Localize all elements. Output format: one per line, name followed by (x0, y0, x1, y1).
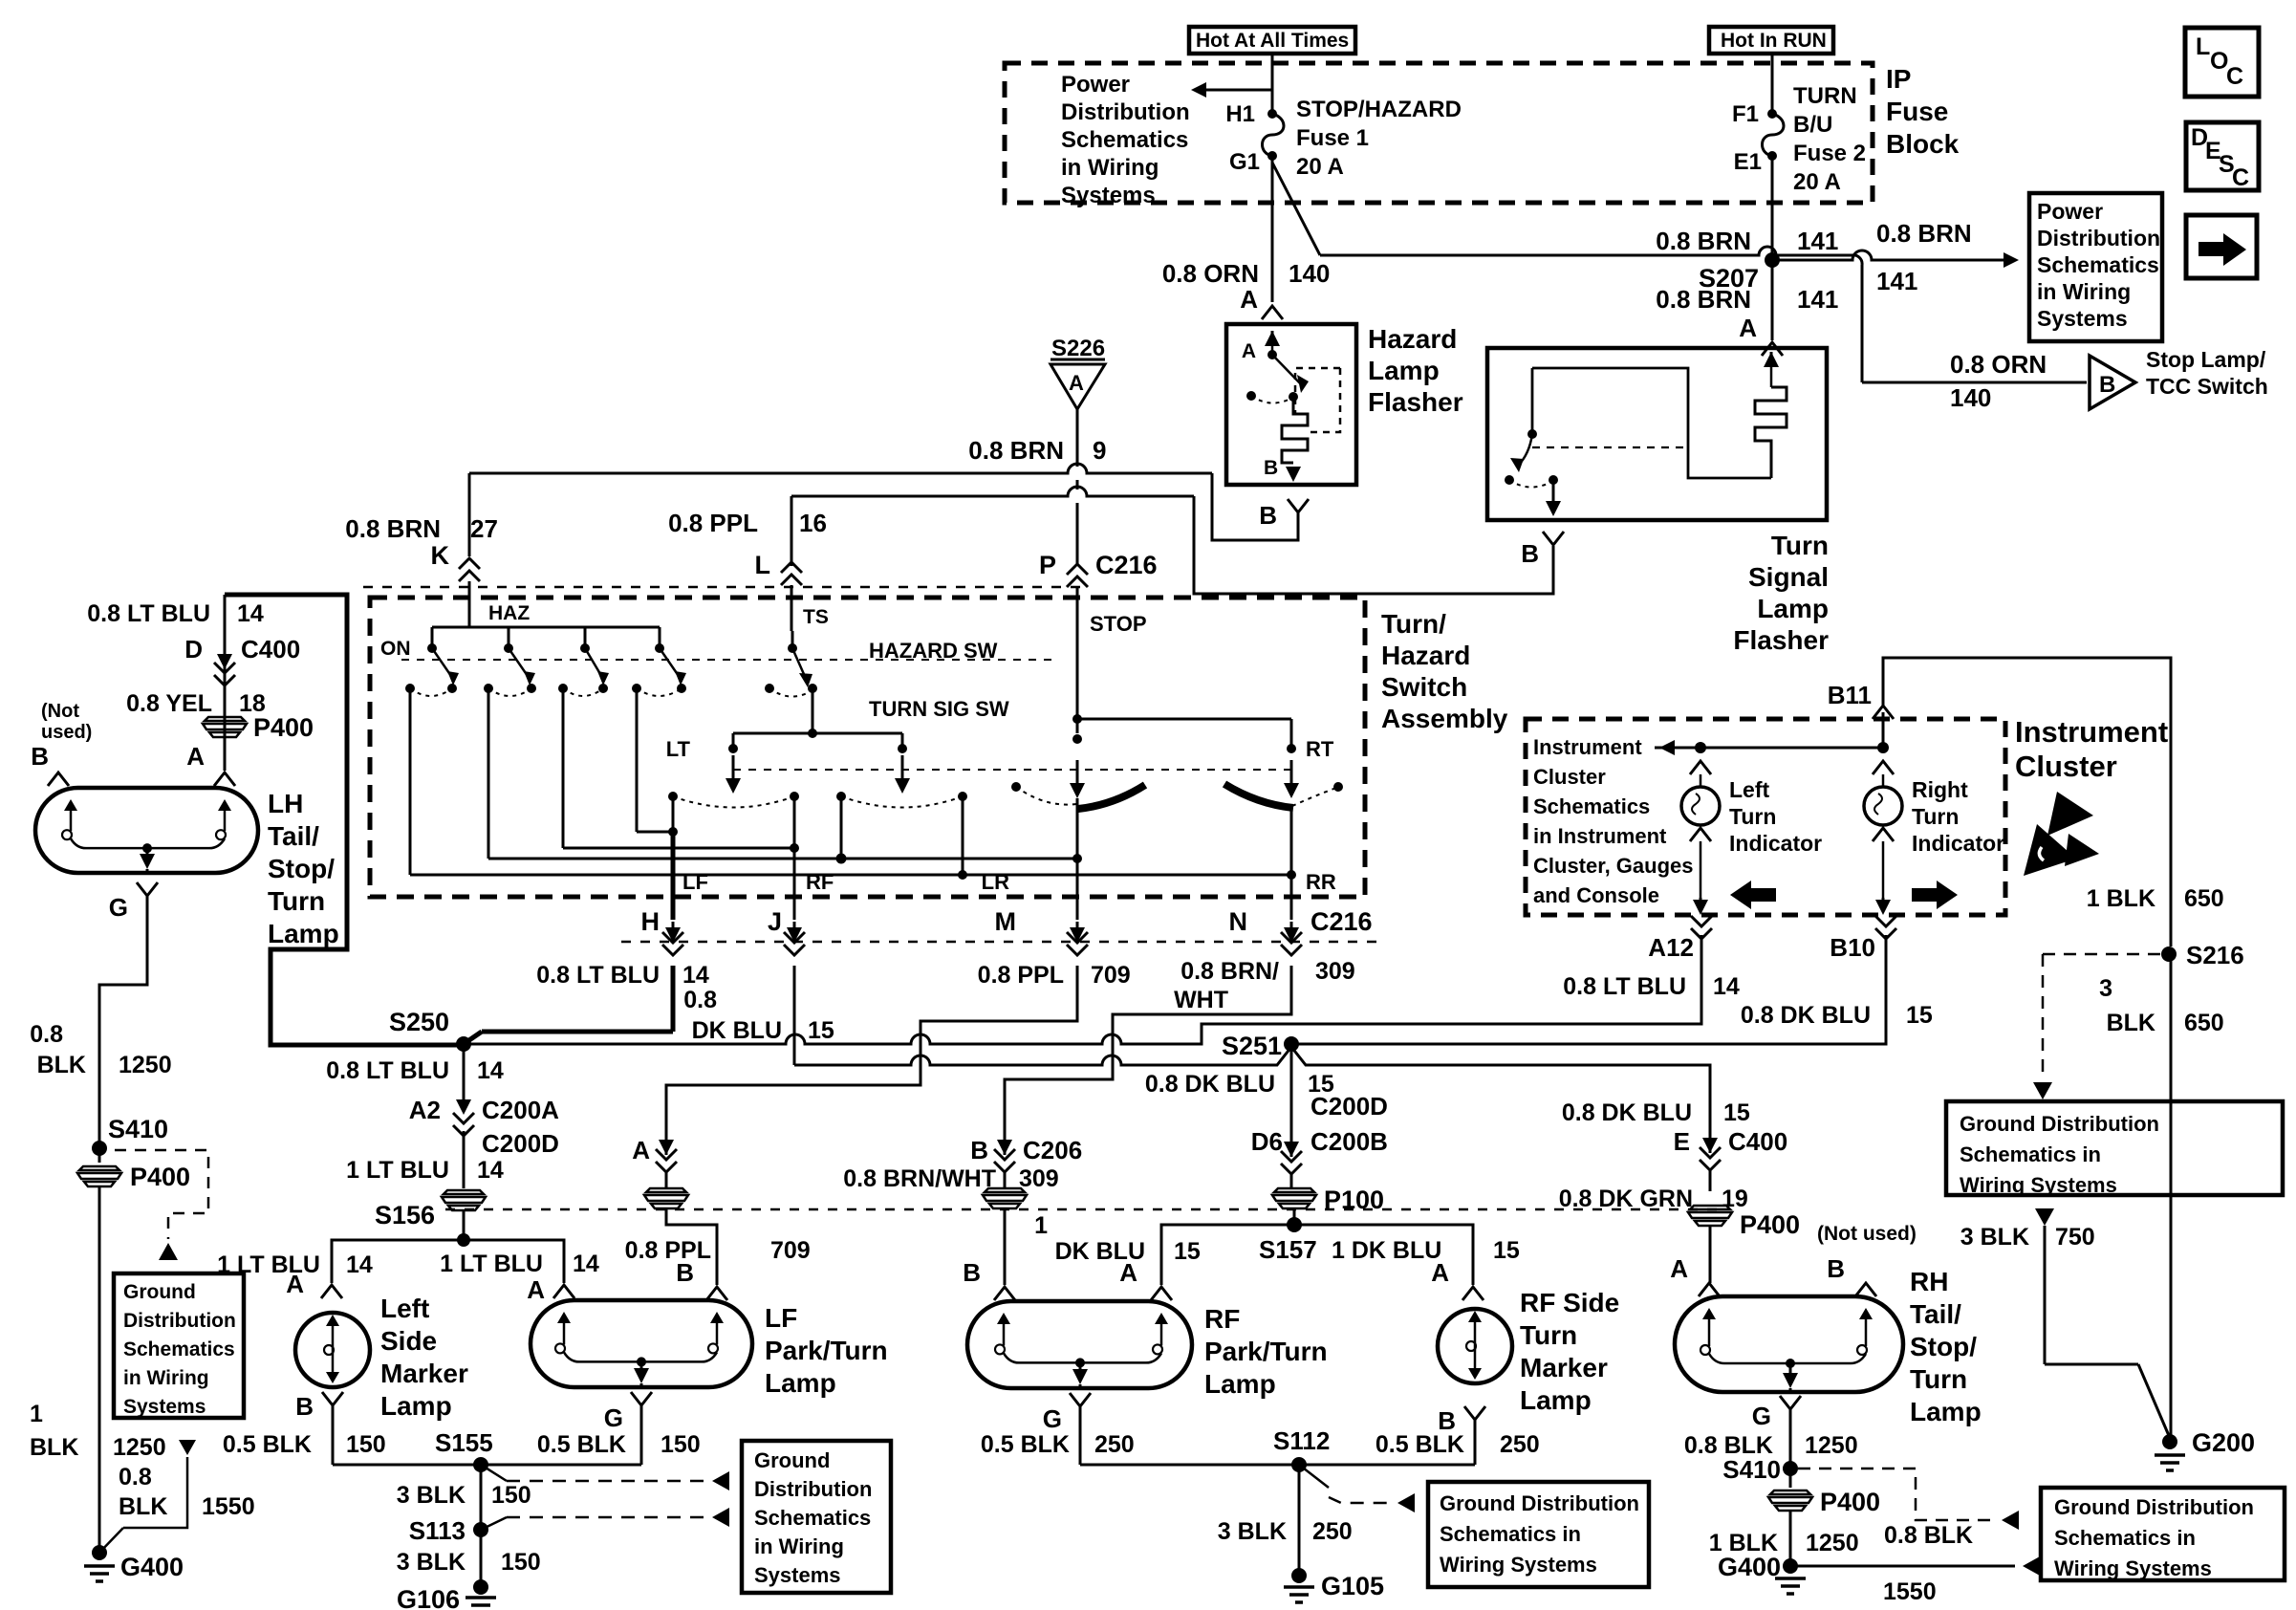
wire fuse1 G1 to hazard flasher A (0.8 ORN 140) (1271, 156, 1274, 302)
svg-text:141: 141 (1876, 267, 1917, 295)
svg-text:1550: 1550 (202, 1493, 255, 1520)
svg-text:0.8 PPL: 0.8 PPL (978, 962, 1064, 989)
inline connector P400 (right, not used) (1690, 1206, 1730, 1209)
svg-text:14: 14 (682, 962, 709, 989)
svg-text:Hazard: Hazard (1368, 324, 1457, 354)
svg-text:1250: 1250 (113, 1434, 166, 1461)
switch bus to N (RR) (409, 688, 412, 875)
wire S156 to left side marker A (1 LT BLU 14) (332, 1240, 464, 1283)
svg-text:0.8 ORN: 0.8 ORN (1950, 350, 2047, 379)
svg-text:DK BLU: DK BLU (1055, 1238, 1145, 1265)
terminal B of turn signal flasher (1543, 532, 1564, 545)
svg-text:B: B (295, 1392, 314, 1421)
svg-text:G106: G106 (397, 1585, 460, 1610)
svg-text:P: P (1039, 551, 1056, 579)
svg-text:Cluster, Gauges: Cluster, Gauges (1533, 854, 1694, 878)
svg-text:P400: P400 (1820, 1488, 1880, 1516)
svg-text:3 BLK: 3 BLK (1218, 1518, 1287, 1545)
right turn indicator bulb (1873, 761, 1894, 774)
svg-text:141: 141 (1797, 285, 1838, 314)
svg-text:Fuse 2: Fuse 2 (1793, 141, 1866, 166)
svg-text:Turn: Turn (1771, 531, 1829, 560)
svg-text:J: J (768, 907, 782, 936)
svg-text:15: 15 (1174, 1238, 1201, 1265)
connector C200B terminal D6 (1290, 1143, 1293, 1157)
svg-text:15: 15 (1493, 1237, 1520, 1264)
svg-text:14: 14 (237, 600, 264, 627)
svg-text:3: 3 (2099, 975, 2112, 1002)
svg-text:Distribution: Distribution (2037, 226, 2160, 250)
svg-text:0.5 BLK: 0.5 BLK (981, 1431, 1070, 1458)
svg-text:150: 150 (501, 1549, 541, 1576)
turn signal dashed travel line (733, 769, 1291, 771)
dashed reference S112 to ground box (1299, 1465, 1329, 1488)
svg-text:H1: H1 (1225, 101, 1255, 127)
svg-text:Turn: Turn (268, 886, 325, 916)
svg-text:Systems: Systems (2037, 306, 2128, 331)
svg-text:A: A (527, 1275, 545, 1304)
svg-text:0.8: 0.8 (683, 987, 717, 1013)
legend box arrow (2186, 215, 2257, 278)
terminal A of RH tail lamp (1699, 1283, 1720, 1296)
svg-text:C200D: C200D (1310, 1092, 1388, 1120)
wire B11 to S216 (1 BLK 650) (1883, 658, 2171, 946)
svg-text:0.8 LT BLU: 0.8 LT BLU (536, 962, 660, 989)
svg-text:1: 1 (1034, 1212, 1048, 1239)
svg-text:0.5 BLK: 0.5 BLK (1375, 1431, 1464, 1458)
svg-text:Ground Distribution: Ground Distribution (2054, 1495, 2254, 1519)
svg-text:C200A: C200A (482, 1096, 559, 1124)
svg-text:A: A (1242, 340, 1256, 362)
svg-text:RH: RH (1910, 1267, 1948, 1296)
hazard switch bus and labels (432, 626, 660, 629)
svg-text:0.8: 0.8 (30, 1021, 63, 1048)
svg-text:Ground Distribution: Ground Distribution (1960, 1112, 2159, 1136)
svg-text:S157: S157 (1259, 1235, 1317, 1264)
svg-text:0.8 DK BLU: 0.8 DK BLU (1741, 1002, 1871, 1029)
fuse F2 TURN B/U Fuse 2 20 A (1767, 109, 1777, 119)
svg-text:Distribution: Distribution (1061, 99, 1190, 125)
right arrow icon (1912, 888, 1939, 902)
wire turn signal flasher B to switch TS terminal L (0.8 PPL 16) (1194, 496, 1553, 594)
svg-text:BLK: BLK (119, 1493, 167, 1520)
splice S207 (1765, 252, 1780, 268)
svg-text:LT: LT (666, 737, 691, 761)
svg-text:A: A (1069, 371, 1084, 395)
svg-text:RF Side: RF Side (1520, 1288, 1619, 1317)
svg-text:3 BLK: 3 BLK (397, 1482, 466, 1509)
switch output wire LF (to H) (672, 796, 675, 832)
svg-text:Switch: Switch (1381, 672, 1467, 702)
svg-text:B10: B10 (1830, 933, 1875, 962)
connector B triangle: Stop Lamp/TCC Switch (2090, 356, 2135, 409)
svg-text:Lamp: Lamp (1368, 356, 1440, 385)
svg-text:Signal: Signal (1748, 562, 1829, 592)
svg-text:Systems: Systems (123, 1396, 206, 1418)
svg-text:14: 14 (477, 1057, 504, 1084)
hazard switch fixed contacts + travel arcs (405, 684, 415, 693)
splice below S156 (457, 1233, 470, 1247)
svg-text:27: 27 (470, 514, 498, 543)
svg-text:20 A: 20 A (1793, 169, 1841, 195)
ground G400 (left) (92, 1545, 107, 1560)
svg-text:A: A (1240, 285, 1258, 314)
svg-text:Park/Turn: Park/Turn (765, 1336, 888, 1365)
svg-text:141: 141 (1797, 227, 1838, 255)
svg-text:Lamp: Lamp (765, 1368, 836, 1398)
svg-text:Instrument: Instrument (1533, 735, 1642, 759)
wire G1 branch to stop lamp (diagonal + horizontal, hops over BRN141) (1272, 163, 1320, 255)
svg-text:1550: 1550 (1883, 1578, 1937, 1605)
svg-text:in Wiring: in Wiring (2037, 279, 2131, 304)
svg-text:Fuse: Fuse (1886, 97, 1948, 126)
svg-text:650: 650 (2184, 885, 2224, 912)
reference box: Ground Distribution Schematics in Wiring Systems (bottom right) (2041, 1488, 2285, 1580)
dashed reference S155 to ground box (481, 1465, 507, 1481)
svg-text:250: 250 (1312, 1518, 1353, 1545)
svg-text:Cluster: Cluster (1533, 765, 1606, 789)
svg-text:G1: G1 (1229, 149, 1260, 175)
svg-text:HAZARD SW: HAZARD SW (869, 639, 998, 663)
svg-text:15: 15 (808, 1017, 834, 1044)
terminal A of LH tail lamp (214, 772, 235, 786)
wire RH lamp G to S410 (0.8 BLK 1250) (1789, 1409, 1792, 1463)
svg-text:Wiring Systems: Wiring Systems (1440, 1553, 1597, 1577)
svg-text:S410: S410 (1722, 1455, 1781, 1484)
turn/hazard switch assembly dashed box (370, 598, 1365, 897)
svg-text:Lamp: Lamp (1757, 594, 1829, 623)
svg-text:BLK: BLK (30, 1434, 78, 1461)
svg-text:Schematics: Schematics (1061, 127, 1188, 153)
svg-text:TURN SIG SW: TURN SIG SW (869, 697, 1009, 721)
svg-text:309: 309 (1315, 958, 1355, 985)
svg-text:LF: LF (765, 1303, 797, 1333)
wire left marker B to S155 (0.5 BLK 150) (333, 1464, 474, 1467)
svg-text:Block: Block (1886, 129, 1960, 159)
svg-text:0.8: 0.8 (119, 1464, 152, 1490)
splice S410 (right) (1783, 1461, 1798, 1476)
wire H down to S250 link (671, 966, 676, 1032)
wire B11 common feed in cluster (1655, 747, 1883, 750)
svg-text:B: B (1521, 539, 1539, 568)
svg-text:B11: B11 (1828, 681, 1872, 709)
svg-text:Indicator: Indicator (1912, 831, 2004, 856)
reference box: Ground Distribution Schematics in Wiring Systems (right) (1946, 1101, 2283, 1195)
svg-text:Hot In RUN: Hot In RUN (1721, 30, 1827, 52)
svg-text:1250: 1250 (1805, 1432, 1858, 1459)
turn signal flasher internals: switch arm, contacts, resistor (1770, 352, 1773, 365)
svg-text:Turn: Turn (1912, 804, 1959, 829)
wire LH tail lamp feed D/C400 (0.8 LT BLU 14, 0.8 YEL 18) (224, 595, 227, 771)
svg-text:(Not: (Not (41, 701, 79, 722)
hazard lamp flasher box (1226, 324, 1356, 485)
ESD warning symbol (2047, 792, 2093, 836)
svg-text:ON: ON (380, 638, 411, 660)
svg-text:S112: S112 (1273, 1426, 1330, 1455)
svg-text:Power: Power (1061, 72, 1130, 98)
lamp: Left Side Marker Lamp (295, 1313, 370, 1387)
ground G400 (right) (1783, 1558, 1798, 1574)
svg-text:Ground: Ground (123, 1281, 196, 1303)
svg-text:Left: Left (380, 1294, 429, 1323)
svg-text:0.8 DK BLU: 0.8 DK BLU (1562, 1099, 1692, 1126)
svg-text:0.8 ORN: 0.8 ORN (1162, 259, 1259, 288)
svg-text:Flasher: Flasher (1368, 387, 1463, 417)
wire S250 down to S156 (A2 C200A C200D) (463, 1044, 466, 1099)
wire Hot At All Times to fuse 1 (1271, 54, 1274, 110)
svg-text:Marker: Marker (1520, 1353, 1608, 1382)
svg-text:TCC Switch: TCC Switch (2146, 374, 2268, 399)
svg-text:1 LT BLU: 1 LT BLU (346, 1157, 449, 1184)
terminal B of left side marker (322, 1392, 343, 1405)
wire 750 to G200 (2045, 1363, 2138, 1366)
svg-text:Systems: Systems (754, 1563, 841, 1587)
svg-text:Right: Right (1912, 777, 1968, 802)
svg-text:0.8 BRN/WHT: 0.8 BRN/WHT (843, 1165, 996, 1192)
svg-text:RF: RF (1204, 1304, 1240, 1334)
splice S216 (2161, 946, 2177, 962)
svg-text:Turn/: Turn/ (1381, 609, 1446, 639)
svg-text:A: A (1739, 314, 1757, 342)
splice S410 (left) (92, 1141, 107, 1156)
connector C216 dashed line (top) (363, 586, 1085, 589)
wire S157 to RF park lamp A (1 DK BLU 15) (1161, 1225, 1294, 1285)
splice S112 (1291, 1457, 1307, 1472)
svg-text:150: 150 (346, 1431, 386, 1458)
left turn indicator bulb (1690, 761, 1711, 774)
svg-text:Turn: Turn (1729, 804, 1776, 829)
svg-text:HAZ: HAZ (488, 602, 530, 624)
svg-text:C200B: C200B (1310, 1127, 1388, 1156)
svg-text:C206: C206 (1023, 1136, 1082, 1164)
svg-text:L: L (2196, 33, 2210, 60)
stop wire junctions and RT bus (1072, 714, 1082, 724)
svg-text:Fuse 1: Fuse 1 (1296, 125, 1369, 151)
stop-to-LR wiper (bold arc) (1078, 785, 1145, 809)
svg-text:G400: G400 (1718, 1553, 1781, 1581)
svg-text:250: 250 (1500, 1431, 1540, 1458)
svg-text:Distribution: Distribution (754, 1477, 872, 1501)
splice S251 (1284, 1036, 1299, 1052)
svg-text:140: 140 (1950, 383, 1991, 412)
svg-text:S155: S155 (435, 1428, 493, 1457)
svg-text:0.8 LT BLU: 0.8 LT BLU (87, 600, 210, 627)
wire RF lamp G to S112 (0.5 BLK 250) (1080, 1464, 1292, 1467)
inline connector P400 (left of LH lamp) (205, 717, 245, 721)
wire S157 to RF side marker A (1 DK BLU 15) (1294, 1225, 1473, 1285)
terminal B of hazard flasher (1288, 499, 1309, 512)
svg-text:M: M (995, 907, 1017, 936)
svg-text:STOP/HAZARD: STOP/HAZARD (1296, 97, 1462, 122)
svg-text:Assembly: Assembly (1381, 704, 1508, 733)
svg-text:P400: P400 (1740, 1210, 1800, 1239)
svg-text:(Not used): (Not used) (1817, 1223, 1917, 1245)
power tag: Hot In RUN (1709, 27, 1833, 54)
svg-text:0.8 LT BLU: 0.8 LT BLU (1563, 973, 1686, 1000)
svg-text:RR: RR (1306, 870, 1336, 894)
svg-text:C400: C400 (1728, 1127, 1787, 1156)
connector C216 terminal P (1067, 564, 1088, 575)
svg-text:1: 1 (30, 1401, 43, 1427)
arrow to power distribution (left) (1204, 89, 1273, 92)
inline connector dashed line (445, 1208, 1721, 1211)
svg-text:Park/Turn: Park/Turn (1204, 1337, 1328, 1366)
svg-text:Schematics in: Schematics in (2054, 1526, 2196, 1550)
svg-text:RF: RF (806, 870, 834, 894)
svg-text:1250: 1250 (1806, 1530, 1859, 1556)
svg-text:S216: S216 (2186, 941, 2244, 969)
wire S156 to LF park lamp A (1 LT BLU 14) (464, 1240, 564, 1283)
wire S251 to instrument cluster B10 (0.8 DK BLU 15) (1291, 935, 1886, 1044)
svg-text:S113: S113 (409, 1516, 466, 1545)
svg-text:0.8 BLK: 0.8 BLK (1884, 1522, 1973, 1549)
svg-text:B: B (963, 1258, 981, 1287)
svg-text:G105: G105 (1321, 1572, 1384, 1600)
svg-text:3 BLK: 3 BLK (1960, 1224, 2029, 1251)
svg-text:0.8 BRN/: 0.8 BRN/ (1180, 958, 1279, 985)
fuse F1 STOP/HAZARD Fuse 1 20 A (1267, 109, 1277, 119)
connector B10 into instrument cluster (1875, 916, 1896, 926)
splice S155 (473, 1457, 488, 1472)
inline connector S156 (444, 1190, 484, 1194)
inline connector below B (BRN/WHT) (985, 1188, 1025, 1192)
svg-text:Tail/: Tail/ (268, 821, 319, 851)
svg-text:DK BLU: DK BLU (692, 1017, 782, 1044)
svg-text:K: K (431, 541, 450, 570)
svg-text:BLK: BLK (37, 1052, 86, 1078)
RT-to-RR wiper (bold arc) (1224, 784, 1293, 808)
svg-text:in Wiring: in Wiring (123, 1367, 209, 1389)
ground G200 (2162, 1434, 2177, 1449)
wire S155 to LF lamp G (0.5 BLK 150) (481, 1464, 641, 1467)
svg-text:G: G (109, 893, 128, 922)
terminal B of RF side marker (1464, 1406, 1485, 1420)
splice S113 (473, 1522, 488, 1537)
svg-text:Lamp: Lamp (1910, 1397, 1982, 1426)
svg-text:in Wiring: in Wiring (754, 1534, 844, 1558)
dashed reference S410 to ground box (right) (1798, 1469, 1994, 1520)
svg-text:Ground Distribution: Ground Distribution (1440, 1491, 1639, 1515)
svg-text:A12: A12 (1648, 933, 1694, 962)
lamp: RH Tail/Stop/Turn Lamp (1675, 1296, 1903, 1392)
svg-text:Indicator: Indicator (1729, 831, 1822, 856)
wire J down and right to E (0.8 DK BLU 15) with S251 tap (793, 966, 796, 1065)
connector B11 (1882, 712, 1885, 748)
svg-text:S251: S251 (1222, 1032, 1282, 1060)
svg-text:G400: G400 (120, 1553, 184, 1581)
svg-text:1 DK BLU: 1 DK BLU (1332, 1237, 1441, 1264)
lamp: RF Park/Turn Lamp (967, 1301, 1192, 1388)
reference box: Ground Distribution Schematics in Wiring Systems (mid-left) (742, 1441, 891, 1593)
svg-text:Instrument: Instrument (2015, 715, 2168, 749)
svg-text:D6: D6 (1251, 1127, 1283, 1156)
svg-text:0.8 DK BLU: 0.8 DK BLU (1145, 1071, 1275, 1098)
turn signal lamp flasher box (1487, 348, 1827, 520)
svg-text:16: 16 (799, 509, 827, 537)
svg-text:A: A (632, 1136, 650, 1164)
svg-text:L: L (755, 551, 771, 579)
ground G106 (473, 1579, 488, 1595)
terminal B of LH tail lamp (not used) (48, 772, 69, 786)
svg-text:E: E (1674, 1127, 1690, 1156)
svg-text:Schematics: Schematics (123, 1338, 235, 1360)
IP Fuse Block dashed box (1005, 63, 1873, 203)
svg-text:0.5 BLK: 0.5 BLK (537, 1431, 626, 1458)
svg-text:0.8 PPL: 0.8 PPL (668, 509, 758, 537)
svg-text:150: 150 (491, 1482, 531, 1509)
left arrow icon (1749, 888, 1776, 902)
terminal B of RH tail lamp (1855, 1283, 1876, 1296)
svg-text:Schematics: Schematics (2037, 252, 2159, 277)
svg-text:14: 14 (1713, 973, 1740, 1000)
svg-text:750: 750 (2055, 1224, 2095, 1251)
wire 1550 to G400 (left) (123, 1457, 187, 1528)
svg-text:309: 309 (1019, 1165, 1059, 1192)
svg-text:LR: LR (982, 870, 1009, 894)
svg-text:Turn: Turn (1910, 1364, 1967, 1394)
svg-text:G: G (1752, 1402, 1771, 1430)
legend box LOC (2185, 28, 2259, 97)
switch bus to M (LR) (487, 688, 490, 859)
turn signal switch pole (TS) (788, 643, 797, 653)
reference box: Ground Distribution Schematics in Wiring Systems (left) (114, 1273, 244, 1418)
reference triangle to 3 BLK 750 wire (2035, 1208, 2054, 1226)
svg-text:H: H (641, 907, 661, 936)
svg-text:15: 15 (1723, 1099, 1750, 1126)
svg-text:Systems: Systems (1061, 183, 1156, 208)
svg-text:and Console: and Console (1533, 883, 1659, 907)
svg-text:0.8 BRN: 0.8 BRN (1876, 219, 1972, 248)
svg-text:Hazard: Hazard (1381, 641, 1470, 670)
svg-text:C216: C216 (1095, 551, 1158, 579)
ground G105 (1291, 1568, 1307, 1583)
svg-text:P400: P400 (130, 1163, 190, 1191)
lamp: LF Park/Turn Lamp (531, 1300, 752, 1387)
svg-text:0.8 PPL: 0.8 PPL (625, 1237, 711, 1264)
wire fuse2 E1 to S207 and down to turn signal flasher A (0.8 BRN 141) (1771, 156, 1774, 340)
wire S250 to instrument cluster A12 (0.8 LT BLU 14, hops J and PPL wires) (464, 935, 1701, 1044)
svg-text:G200: G200 (2192, 1428, 2255, 1457)
svg-text:1250: 1250 (119, 1052, 172, 1078)
svg-text:Lamp: Lamp (268, 919, 339, 948)
svg-text:0.8 BRN: 0.8 BRN (345, 514, 441, 543)
svg-text:1 LT BLU: 1 LT BLU (440, 1251, 543, 1277)
inline connector P400 (left ground) (98, 1148, 101, 1163)
terminal G of LF park lamp (631, 1392, 652, 1405)
svg-text:B: B (2099, 372, 2115, 398)
svg-text:Marker: Marker (380, 1359, 468, 1388)
connector C216 terminal K (459, 558, 480, 569)
reference triangle to 1 LT BLU A (left) (159, 1243, 178, 1260)
dashed reference S216 to ground box (2043, 953, 2162, 956)
svg-text:C: C (2226, 63, 2243, 90)
terminal G of RF park lamp (1070, 1393, 1091, 1406)
terminal G of RH tail lamp (1780, 1396, 1801, 1409)
svg-text:0.8 LT BLU: 0.8 LT BLU (326, 1057, 449, 1084)
svg-text:140: 140 (1289, 259, 1330, 288)
wire S226 to connector C216 P (0.8 BRN 9) (1076, 409, 1079, 467)
svg-text:C: C (2232, 164, 2249, 191)
splice S250 (456, 1036, 471, 1052)
svg-text:Tail/: Tail/ (1910, 1299, 1961, 1329)
hazard switch movable arms (4) (431, 627, 434, 648)
svg-text:N: N (1229, 907, 1248, 936)
svg-text:B: B (676, 1258, 694, 1287)
wire G400 to ground box (0.8 BLK 1550) (1790, 1565, 2015, 1568)
wire S112 to RF marker B (0.5 BLK 250) (1299, 1464, 1475, 1467)
svg-text:B: B (970, 1136, 988, 1164)
svg-text:S226: S226 (1051, 336, 1105, 361)
